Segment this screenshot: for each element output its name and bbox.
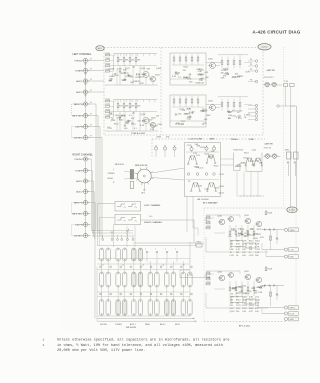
top rail [114, 53, 158, 55]
svg-text:TAPE REC: TAPE REC [72, 114, 83, 117]
svg-text:100K: 100K [249, 308, 254, 310]
wafer terminal r1 9 [180, 266, 182, 268]
svg-text:R135 R137: R135 R137 [234, 149, 244, 151]
svg-text:in ohms, ½ Watt, 10% for band: in ohms, ½ Watt, 10% for band tolerance,… [57, 343, 223, 348]
wire selector left stubs [124, 171, 138, 174]
bias diode string right [264, 285, 266, 287]
cluster box outlines left [231, 241, 243, 247]
contact C12 [188, 300, 192, 316]
phase splitter left [256, 221, 261, 226]
svg-text:B+1: B+1 [149, 216, 152, 218]
feedback wires left [239, 215, 241, 218]
svg-text:8.2K: 8.2K [236, 243, 241, 245]
volume control box right channel [115, 215, 141, 225]
resistor R132 [179, 57, 181, 61]
transistor Q106 [210, 105, 216, 111]
svg-text:R123: R123 [106, 110, 111, 112]
power rail verticals [290, 106, 292, 208]
output filter parts right [270, 286, 272, 307]
transistor Q101 [143, 72, 149, 78]
svg-text:TUNER: TUNER [75, 70, 83, 72]
power amp dotted border right [295, 210, 297, 322]
volume pot symbol L2 [128, 204, 136, 207]
svg-text:8.2K: 8.2K [172, 76, 177, 78]
board stamp oval 4-1162 [258, 44, 271, 50]
svg-text:0.047: 0.047 [199, 83, 205, 85]
output line right [262, 285, 284, 287]
feedback wires [139, 66, 141, 86]
svg-text:2.2K: 2.2K [186, 108, 191, 110]
svg-text:TAPE MON: TAPE MON [115, 163, 125, 166]
tone box output drops [186, 197, 188, 233]
svg-text:SW 4-6235: SW 4-6235 [126, 327, 137, 329]
top rail [114, 99, 158, 101]
lamp branch verticals [285, 86, 287, 106]
svg-text:Unless otherwise specified, al: Unless otherwise specified, all capacito… [57, 338, 230, 343]
svg-text:AF 5: AF 5 [142, 192, 146, 195]
wafer terminal r2 4 [130, 293, 132, 295]
dashed tape interlink [72, 104, 86, 116]
dashed din interlink [72, 127, 86, 138]
right tone block outline [234, 153, 263, 172]
rail resistor right [265, 267, 267, 271]
bank right riser [189, 242, 191, 263]
contact B2 [106, 272, 110, 287]
contact A 116 [116, 248, 120, 261]
wafer terminal r2 5 [140, 293, 142, 295]
row A right terminals [146, 251, 148, 253]
bank horizontal buses [97, 258, 190, 260]
svg-text:R103: R103 [106, 64, 111, 66]
tone board dashed top border [152, 138, 265, 140]
bottom rail right [205, 293, 207, 308]
svg-text:R203: R203 [206, 282, 210, 284]
svg-text:TAPE PB: TAPE PB [74, 103, 83, 106]
mid rail [114, 65, 158, 67]
bottom rail [105, 130, 158, 132]
contact B10 [171, 272, 175, 287]
phono equalizer stage channel 2 [106, 100, 110, 102]
wafer terminal r2 7 [160, 293, 162, 295]
svg-text:TONE A 4-1162: TONE A 4-1162 [131, 132, 146, 135]
svg-text:PL1 8V PL2: PL1 8V PL2 [264, 77, 274, 79]
svg-text:TREBLE: TREBLE [231, 139, 239, 141]
svg-text:P4: P4 [250, 80, 252, 82]
svg-text:Q103: Q103 [121, 115, 127, 117]
svg-text:R CH: R CH [290, 314, 295, 316]
scan background tint [62, 40, 300, 332]
svg-text:TAPE REC: TAPE REC [72, 212, 83, 215]
resistor R145 [197, 99, 199, 103]
inner dashed divider [160, 48, 162, 136]
svg-text:C4: C4 [142, 265, 144, 267]
capacitor C122 [127, 120, 129, 122]
wires tone box to right block [221, 158, 234, 160]
potentiometer VR4 [190, 147, 193, 150]
coupling wires [206, 104, 222, 106]
rail stubs [114, 100, 116, 103]
wire jack ground bus right [85, 161, 87, 234]
terminal R ground [284, 317, 287, 320]
transistor Q104 [150, 122, 155, 127]
resistor R107 [129, 58, 131, 62]
contact A 132 [132, 248, 136, 261]
wires to right terminals [258, 307, 284, 309]
wire volume box to power amp [141, 220, 195, 243]
svg-text:LEFT CHANNEL: LEFT CHANNEL [73, 53, 92, 56]
resistor R105 [117, 58, 119, 62]
terminal L ground [284, 255, 287, 258]
tone amplifier box [185, 143, 221, 197]
svg-text:0.047: 0.047 [157, 124, 163, 126]
resistor R144 [239, 61, 241, 65]
muting contact 3 [121, 239, 123, 241]
wire selector to tone box lower [151, 178, 184, 181]
svg-text:2.2K: 2.2K [193, 153, 198, 155]
selector feed lines [92, 230, 133, 232]
contact C11 [181, 300, 185, 316]
svg-text:PHONO: PHONO [100, 324, 108, 326]
contact C6 [138, 300, 142, 316]
svg-text:3.3K: 3.3K [255, 252, 260, 254]
pilot lamp PL4 [273, 155, 277, 159]
svg-text:8.2K: 8.2K [184, 114, 189, 116]
potentiometer VR3 [173, 147, 176, 150]
bottom rail [105, 84, 158, 86]
muting contact 1 [102, 239, 104, 241]
svg-text:3.3K: 3.3K [238, 228, 243, 230]
capacitor C121 [119, 116, 121, 118]
lamp capacitor [290, 84, 295, 87]
muting contact 2 [111, 239, 113, 241]
svg-text:100K: 100K [206, 115, 211, 117]
power switch parts right edge [287, 152, 292, 159]
extra caps [124, 124, 126, 126]
svg-text:MONO: MONO [108, 178, 114, 180]
resistor R152 [227, 103, 229, 107]
potentiometer VR2 [163, 147, 166, 150]
svg-text:SPKR: SPKR [290, 308, 296, 310]
dashed net segment [240, 195, 265, 197]
svg-text:TUNER: TUNER [75, 170, 83, 172]
svg-text:C2: C2 [122, 265, 124, 267]
contact C4 [123, 300, 127, 316]
pilot lamp PL1 [265, 83, 269, 87]
bias terminal circles [187, 173, 190, 176]
svg-text:LAMP SW: LAMP SW [265, 142, 274, 145]
wafer terminal r2 8 [170, 293, 172, 295]
selector ground [143, 183, 145, 189]
transistor Q102 [150, 76, 155, 81]
flat amp stage box channel 2 [170, 95, 206, 127]
svg-text:8.2K: 8.2K [245, 72, 250, 74]
svg-text:100K: 100K [117, 68, 122, 70]
svg-text:4.7K: 4.7K [189, 113, 194, 115]
svg-text:3.3K: 3.3K [230, 297, 235, 299]
wafer terminal r1 1 [100, 266, 102, 268]
contact C8 [155, 300, 159, 316]
board edge connector pins upper [255, 60, 258, 63]
lamp dropper resistor [284, 84, 288, 87]
svg-text:2: 2 [43, 344, 45, 347]
contact A 99 [99, 248, 103, 261]
svg-text:C8: C8 [183, 265, 185, 267]
wafer terminal r2 9 [180, 293, 182, 295]
resistor R131 [173, 57, 175, 61]
svg-text:Q201: Q201 [218, 215, 223, 217]
contact A 122 [123, 248, 127, 261]
svg-text:100K: 100K [110, 68, 115, 70]
mid resistor row left [229, 231, 231, 235]
wafer terminal r1 3 [120, 266, 122, 268]
pilot lamp PL3 [266, 155, 270, 159]
svg-text:8.2K: 8.2K [150, 129, 155, 131]
contact A 138 [138, 248, 142, 261]
wire jack to preamp board [89, 60, 104, 62]
contact A 106 [106, 248, 110, 261]
svg-text:P2: P2 [250, 64, 252, 66]
potentiometer VR1 [154, 147, 157, 150]
svg-text:A-426 CIRCUIT DIAG: A-426 CIRCUIT DIAG [252, 29, 300, 34]
contact C5 [132, 300, 136, 316]
driver transistor Q202 left [229, 217, 234, 222]
svg-text:C 220: C 220 [284, 81, 288, 83]
resistor stack 2 [130, 182, 133, 189]
svg-text:STEREO: STEREO [108, 173, 116, 175]
resistor R151 [221, 103, 223, 107]
svg-text:PHONO: PHONO [75, 60, 83, 62]
svg-text:LEFT CHANNEL: LEFT CHANNEL [144, 204, 161, 207]
svg-text:TAPE PB: TAPE PB [74, 201, 83, 204]
contact B4 [123, 272, 127, 287]
svg-text:RIGHT CHANNEL: RIGHT CHANNEL [144, 221, 163, 224]
cluster box outlines right [231, 297, 243, 303]
speaker terminal L plus [284, 228, 287, 231]
dashed din interlink right [72, 225, 86, 236]
pilot lamp PL2 [272, 83, 276, 87]
wires to left terminals [262, 249, 284, 251]
resistor R143 [233, 61, 235, 65]
svg-text:4-1162: 4-1162 [261, 47, 268, 49]
wafer terminal r1 5 [140, 266, 142, 268]
resistor R153 [233, 103, 235, 107]
svg-text:LOUD: LOUD [156, 137, 162, 139]
svg-text:SW1: SW1 [285, 149, 289, 151]
speaker terminal L minus [284, 248, 287, 251]
lamp2 wiring [264, 156, 266, 158]
svg-text:P1: P1 [250, 59, 252, 61]
bank left boundary [94, 242, 96, 319]
svg-text:0.047: 0.047 [147, 119, 153, 121]
svg-text:R203: R203 [206, 226, 210, 228]
mid resistor row right [229, 287, 231, 291]
svg-text:R202: R202 [206, 221, 210, 223]
svg-text:C0: C0 [102, 265, 104, 267]
svg-text:R201: R201 [206, 272, 210, 274]
wires volume boxes down to bank [113, 225, 115, 248]
svg-text:Q105: Q105 [208, 58, 213, 60]
transistor pair Q111 Q112 [188, 156, 192, 163]
svg-text:2.2K: 2.2K [141, 74, 146, 76]
contact C7 [148, 300, 152, 316]
svg-text:4.7K: 4.7K [187, 79, 192, 81]
muting wire [180, 277, 210, 279]
svg-text:Q203: Q203 [244, 271, 249, 273]
capacitor C102 [127, 74, 129, 76]
transistor pair Q115 Q116 [191, 183, 195, 190]
wire into volume box left [98, 203, 116, 205]
board edge connector pins lower [255, 104, 258, 107]
power amp dotted border left [203, 208, 205, 322]
svg-text:L: L [113, 169, 114, 171]
svg-text:R201: R201 [206, 216, 210, 218]
svg-text:20,000 ohm per Volt VOM, 117V: 20,000 ohm per Volt VOM, 117V power line… [57, 348, 145, 353]
driver transistor Q201 left [219, 219, 225, 225]
svg-text:P401: P401 [197, 242, 201, 244]
svg-text:R101: R101 [106, 53, 111, 55]
resistor R154 [239, 103, 241, 107]
wires right jacks into selector feeds [89, 159, 95, 231]
resistor R142 [227, 61, 229, 65]
pre-driver left [245, 218, 250, 223]
svg-text:1: 1 [43, 339, 45, 342]
wafer terminal r1 6 [150, 266, 152, 268]
svg-text:PL3 PL4: PL3 PL4 [264, 147, 271, 149]
svg-text:AUX 1: AUX 1 [76, 180, 83, 183]
bank bottom buses with arrows [97, 318, 194, 320]
svg-text:8.2K: 8.2K [238, 233, 243, 235]
wire jack ground bus left [85, 62, 87, 102]
rail stubs [114, 54, 116, 57]
svg-text:2.2K: 2.2K [232, 289, 237, 291]
svg-text:R121: R121 [106, 99, 111, 101]
wafer terminal r1 10 [191, 266, 193, 268]
driver transistor Q201 right [219, 275, 225, 281]
wire into volume box right [100, 217, 116, 219]
resistor R134 [191, 57, 193, 61]
transistor pair Q117 Q118 [207, 183, 211, 190]
wire lower bus [97, 243, 196, 246]
svg-text:Q203: Q203 [244, 215, 249, 217]
contact B5 [132, 272, 136, 287]
coupling wires [206, 62, 222, 64]
svg-text:4.7K: 4.7K [136, 74, 141, 76]
contact C2 [106, 300, 110, 316]
svg-text:AF 2 MAIN AMP: AF 2 MAIN AMP [203, 201, 218, 204]
power rails into amp [292, 208, 294, 213]
svg-text:GND: GND [290, 319, 295, 321]
contact B1 [99, 272, 103, 287]
svg-text:3.3K: 3.3K [249, 297, 254, 299]
svg-text:LOUD VOLUME: LOUD VOLUME [189, 138, 204, 140]
output filter parts left [270, 230, 272, 251]
stage caps [175, 113, 177, 115]
transistor Q103 [143, 118, 149, 124]
phono equalizer stage channel 1 [106, 54, 110, 56]
dotted fold line right [283, 47, 285, 207]
svg-text:Q103: Q103 [141, 114, 146, 116]
svg-text:MON: MON [175, 324, 180, 326]
feedback wires [139, 112, 141, 132]
muting contact 4 [127, 239, 129, 241]
svg-text:C6: C6 [162, 265, 164, 267]
svg-text:4.7K: 4.7K [241, 163, 246, 165]
board stamp oval AF-1 [96, 46, 104, 51]
resistor R142 [179, 99, 181, 103]
svg-text:4.7K: 4.7K [238, 118, 243, 120]
resistor R108 [135, 58, 137, 62]
svg-text:3.3K: 3.3K [258, 292, 263, 294]
ground symbols at left jacks [85, 62, 87, 63]
svg-text:AUX 2: AUX 2 [160, 323, 166, 326]
inner comb verticals [116, 115, 118, 131]
svg-text:AUX 1: AUX 1 [76, 80, 83, 83]
bias diode string left [264, 229, 266, 231]
svg-text:Q103: Q103 [110, 120, 116, 122]
stage caps [175, 71, 177, 73]
capacitor C101 [119, 70, 121, 72]
svg-text:Q106: Q106 [208, 100, 213, 102]
wire jack to preamp board [89, 70, 104, 72]
svg-text:AF 1 4-1103: AF 1 4-1103 [198, 198, 210, 201]
volume pot symbol R1 [117, 218, 125, 221]
svg-text:L CH: L CH [290, 250, 295, 252]
pot stubs down [155, 152, 157, 158]
resistor R141 [173, 99, 175, 103]
rail resistor left [265, 211, 267, 215]
contact B7 [148, 272, 152, 287]
wire selector to tone box upper [151, 168, 184, 173]
resistor R133 [185, 57, 187, 61]
inner comb verticals [116, 69, 118, 85]
svg-text:RIGHT CHANNEL: RIGHT CHANNEL [73, 153, 94, 156]
svg-text:8.2K: 8.2K [242, 308, 247, 310]
transistor pair Q113 Q114 [207, 155, 211, 162]
input network right channel [205, 275, 207, 277]
wire tape jacks to selector bank [89, 104, 96, 230]
amp input connector rect [196, 244, 202, 247]
svg-text:4.7K: 4.7K [260, 237, 265, 239]
board stamp oval 4-1201 [287, 207, 297, 213]
svg-text:R219: R219 [268, 269, 272, 271]
svg-text:AUX 2: AUX 2 [76, 91, 83, 94]
pre-driver right [245, 274, 250, 279]
svg-text:AF 3 4-1201: AF 3 4-1201 [239, 324, 251, 327]
contact B6 [138, 272, 142, 287]
contact B3 [116, 272, 120, 287]
svg-text:4.7K: 4.7K [249, 311, 254, 313]
svg-text:AUX 2: AUX 2 [76, 190, 83, 193]
volume control box left channel [115, 202, 141, 212]
svg-text:TAPE MON SW: TAPE MON SW [135, 164, 148, 167]
resistor R106 [123, 58, 125, 62]
driver transistor Q202 right [229, 273, 234, 278]
resistor R135 [197, 57, 199, 61]
tone box internal wires [186, 151, 219, 153]
resistor R126 [123, 104, 125, 108]
mid rail [114, 111, 158, 113]
svg-text:C141: C141 [252, 149, 257, 151]
svg-text:LAMP SW: LAMP SW [267, 69, 276, 72]
dashed tape interlink right [72, 203, 86, 214]
input network left channel [205, 219, 207, 221]
speaker terminal R plus [284, 306, 287, 309]
svg-text:4.7K: 4.7K [129, 77, 134, 79]
wafer terminal r1 2 [110, 266, 112, 268]
speaker terminal R minus [284, 312, 287, 315]
svg-text:Q201: Q201 [218, 271, 223, 273]
rotary mode selector switch [137, 169, 151, 183]
